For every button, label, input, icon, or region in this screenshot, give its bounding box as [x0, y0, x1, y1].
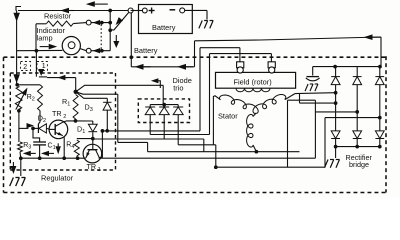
svg-text:TR: TR: [52, 109, 62, 118]
svg-text:Stator: Stator: [218, 111, 238, 120]
svg-text:1: 1: [98, 167, 101, 173]
svg-text:trio: trio: [173, 83, 183, 92]
svg-text:Regulator: Regulator: [41, 174, 74, 183]
svg-text:bridge: bridge: [349, 160, 369, 169]
svg-text:lamp: lamp: [37, 34, 53, 43]
svg-text:2: 2: [23, 64, 27, 71]
svg-text:Battery: Battery: [134, 46, 158, 55]
svg-text:2: 2: [63, 114, 66, 120]
svg-text:Resistor: Resistor: [44, 12, 72, 21]
svg-text:Battery: Battery: [152, 23, 176, 32]
svg-text:Field (rotor): Field (rotor): [234, 78, 272, 87]
svg-text:TR: TR: [87, 162, 97, 171]
